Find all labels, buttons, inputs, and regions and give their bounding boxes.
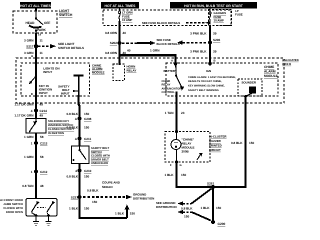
svg-text:48: 48 (40, 184, 44, 188)
svg-text:0.8 BLK: 0.8 BLK (231, 141, 243, 145)
svg-text:S231: S231 (71, 195, 79, 199)
svg-text:0.8 BLK: 0.8 BLK (87, 188, 99, 192)
svg-text:CHIME: CHIME (264, 65, 274, 69)
svg-text:HEAD: HEAD (25, 21, 35, 25)
svg-text:150: 150 (216, 206, 221, 210)
svg-text:HEADLTS ON FAST CHIME,: HEADLTS ON FAST CHIME, (188, 80, 222, 83)
svg-text:150: 150 (181, 173, 186, 177)
svg-text:SOUNDER: SOUNDER (242, 81, 257, 85)
svg-text:HOT AT ALL TIMES: HOT AT ALL TIMES (105, 4, 137, 8)
svg-text:CLOSED WITH: CLOSED WITH (91, 155, 110, 158)
svg-text:CHIME ALARM: 1 FAST PULSE/CHIM: CHIME ALARM: 1 FAST PULSE/CHIME, (188, 76, 236, 79)
svg-text:11: 11 (40, 39, 44, 43)
svg-text:SWITCH: SWITCH (59, 13, 73, 17)
svg-text:SEDAN: SEDAN (102, 185, 113, 189)
svg-text:DOOR OPEN: DOOR OPEN (6, 210, 23, 214)
svg-text:C213: C213 (40, 142, 48, 146)
svg-text:BATTERY: BATTERY (164, 69, 177, 73)
svg-text:1 ORN: 1 ORN (150, 48, 160, 52)
svg-text:C208: C208 (84, 117, 92, 121)
svg-text:150: 150 (249, 141, 254, 145)
svg-text:0.8 BLK: 0.8 BLK (181, 207, 193, 211)
svg-text:150: 150 (84, 206, 89, 210)
svg-text:200B: 200B (182, 149, 190, 153)
svg-text:58: 58 (40, 155, 44, 159)
svg-text:UNLOCATED: UNLOCATED (282, 59, 299, 62)
svg-text:C211: C211 (84, 137, 92, 141)
svg-text:G: G (180, 164, 182, 167)
svg-text:SEE FUSE BLOCK DETAILS: SEE FUSE BLOCK DETAILS (142, 21, 180, 25)
svg-text:S217: S217 (26, 44, 34, 48)
svg-text:SWITCH: SWITCH (91, 151, 102, 154)
svg-text:ALARM: ALARM (264, 70, 276, 74)
svg-text:1: 1 (31, 170, 33, 174)
svg-text:CONTROL: CONTROL (162, 91, 176, 94)
svg-text:DRIVER BELT: DRIVER BELT (91, 158, 109, 161)
svg-text:10 AMP: 10 AMP (122, 18, 132, 22)
svg-text:1 BLK: 1 BLK (69, 206, 79, 210)
svg-text:SAFETY BELT WARNING: SAFETY BELT WARNING (188, 89, 219, 92)
svg-text:PARK: PARK (37, 28, 46, 32)
svg-text:14: 14 (38, 34, 41, 37)
svg-text:S261: S261 (207, 181, 215, 185)
svg-text:4: 4 (31, 109, 33, 113)
svg-text:FUSE: FUSE (235, 13, 243, 17)
svg-text:PRINTED: PRINTED (209, 143, 222, 147)
svg-text:150: 150 (92, 200, 97, 204)
svg-text:0.8 ORN: 0.8 ORN (105, 31, 118, 35)
svg-text:E: E (31, 92, 33, 96)
svg-text:0.8 TAN: 0.8 TAN (22, 184, 34, 188)
svg-text:UNBUCKLED: UNBUCKLED (91, 162, 108, 165)
svg-text:150: 150 (184, 214, 189, 218)
svg-text:58: 58 (40, 135, 44, 139)
svg-text:150: 150 (130, 212, 135, 216)
svg-text:1 BLK: 1 BLK (165, 173, 175, 177)
svg-text:INPUT: INPUT (39, 91, 48, 95)
svg-text:S202: S202 (110, 41, 118, 45)
svg-text:1 TAN: 1 TAN (165, 111, 174, 115)
svg-text:RELAY: RELAY (162, 84, 171, 87)
svg-text:39: 39 (213, 49, 217, 53)
svg-text:IGN: IGN (206, 69, 211, 73)
svg-text:11: 11 (40, 51, 44, 55)
svg-text:C209 B: C209 B (282, 63, 291, 66)
svg-text:BLOCK DETAILS: BLOCK DETAILS (157, 42, 180, 46)
svg-text:INPUT: INPUT (61, 91, 70, 95)
svg-text:G200: G200 (218, 222, 226, 226)
svg-text:OFF: OFF (44, 21, 50, 25)
svg-text:150: 150 (84, 125, 89, 129)
svg-text:IN-CLUSTER: IN-CLUSTER (209, 135, 227, 139)
svg-text:1.17 DK GRN: 1.17 DK GRN (14, 114, 34, 118)
svg-text:10 AMP: 10 AMP (214, 19, 224, 23)
svg-text:ANNUNCIATOR: ANNUNCIATOR (162, 87, 182, 90)
svg-text:S206: S206 (213, 38, 221, 42)
svg-text:150: 150 (84, 175, 89, 179)
svg-text:A: A (171, 59, 173, 63)
svg-text:49: 49 (40, 102, 44, 106)
svg-text:SAFETY BELT: SAFETY BELT (91, 147, 109, 150)
svg-text:C212: C212 (40, 170, 48, 174)
svg-text:DISTRIBUTION: DISTRIBUTION (133, 197, 154, 201)
svg-text:1 BLK: 1 BLK (115, 212, 125, 216)
svg-text:RELAY: RELAY (127, 68, 137, 72)
svg-text:HOT AT ALL TIMES: HOT AT ALL TIMES (20, 4, 52, 8)
svg-text:1 GRN: 1 GRN (24, 155, 34, 159)
svg-text:0.8 BLK: 0.8 BLK (66, 112, 78, 116)
svg-text:1.17 DK GRN: 1.17 DK GRN (14, 102, 34, 106)
svg-text:MODULE: MODULE (92, 71, 105, 75)
svg-text:BUZZER: BUZZER (209, 139, 222, 143)
svg-text:49: 49 (40, 114, 44, 118)
svg-text:HOT IN RUN, BULB TEST OR START: HOT IN RUN, BULB TEST OR START (184, 4, 244, 8)
svg-text:0.8 ORN: 0.8 ORN (105, 51, 118, 55)
svg-text:23: 23 (181, 111, 185, 115)
svg-text:1 GRN: 1 GRN (24, 135, 34, 139)
svg-text:40: 40 (127, 48, 131, 52)
svg-text:C210: C210 (84, 169, 92, 173)
svg-text:C214: C214 (40, 109, 48, 113)
svg-text:40: 40 (123, 31, 127, 35)
svg-text:CHIME: CHIME (162, 80, 171, 83)
svg-text:150: 150 (84, 112, 89, 116)
svg-text:3 PNK BLK: 3 PNK BLK (190, 31, 207, 35)
svg-text:KEY WARNING SLOW CHIME,: KEY WARNING SLOW CHIME, (188, 85, 225, 88)
svg-text:39: 39 (213, 31, 217, 35)
svg-text:INPUT: INPUT (43, 70, 52, 74)
svg-text:0.8 BLK: 0.8 BLK (66, 175, 78, 179)
svg-text:SWITCH DETAILS: SWITCH DETAILS (58, 46, 84, 50)
svg-text:CIRCUIT: CIRCUIT (209, 148, 221, 152)
svg-text:IN IGNITION: IN IGNITION (48, 131, 64, 135)
svg-text:4: 4 (75, 169, 77, 173)
svg-text:DISTRIBUTION: DISTRIBUTION (156, 205, 177, 209)
svg-text:0.8 BLK: 0.8 BLK (66, 125, 78, 129)
svg-text:MODULE: MODULE (264, 74, 278, 78)
svg-text:3 PNK BLK: 3 PNK BLK (190, 49, 207, 53)
svg-text:B: B (214, 59, 216, 63)
svg-text:3 GRN: 3 GRN (24, 39, 34, 43)
svg-text:1: 1 (31, 142, 33, 146)
svg-text:1 BLK: 1 BLK (201, 206, 211, 210)
